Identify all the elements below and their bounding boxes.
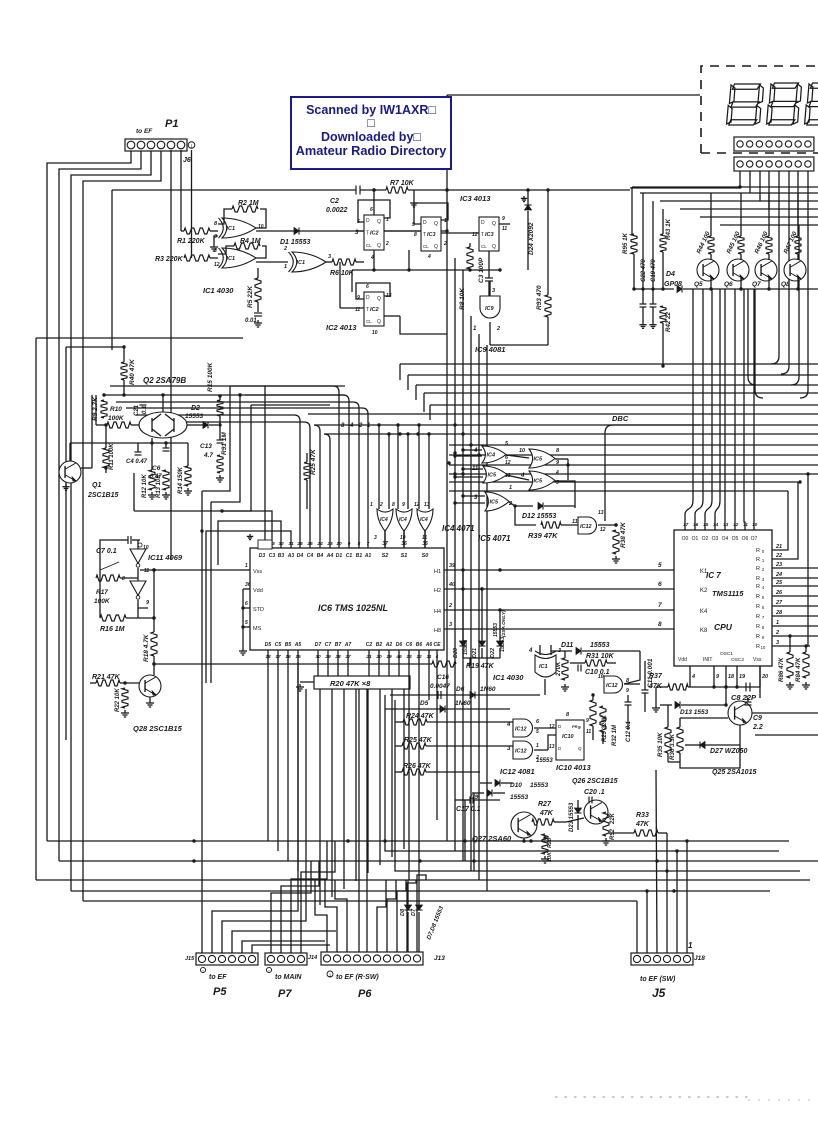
svg-text:4: 4 xyxy=(473,448,478,454)
svg-text:R31 10K: R31 10K xyxy=(586,653,615,660)
svg-text:A2: A2 xyxy=(385,642,393,648)
svg-text:A6: A6 xyxy=(425,642,433,648)
svg-text:15553: 15553 xyxy=(590,642,610,649)
svg-text:D5: D5 xyxy=(420,700,429,707)
svg-text:O7: O7 xyxy=(751,536,758,542)
svg-text:D3: D3 xyxy=(259,553,266,559)
svg-text:CL: CL xyxy=(481,244,487,249)
svg-text:4: 4 xyxy=(555,470,559,476)
svg-text:14: 14 xyxy=(713,522,719,528)
svg-text:C3 100P: C3 100P xyxy=(478,257,485,283)
svg-text:10: 10 xyxy=(372,330,378,336)
svg-text:12: 12 xyxy=(214,262,220,268)
svg-text:21: 21 xyxy=(775,544,782,550)
svg-text:5: 5 xyxy=(658,562,662,569)
svg-text:D2: D2 xyxy=(191,405,200,412)
svg-text:C7 0.1: C7 0.1 xyxy=(96,548,117,555)
svg-text:IC5 4071: IC5 4071 xyxy=(478,534,511,543)
svg-text:R27: R27 xyxy=(538,801,552,808)
svg-text:24: 24 xyxy=(775,572,782,578)
svg-text:28: 28 xyxy=(775,610,783,616)
svg-text:T: T xyxy=(481,232,484,238)
svg-text:3: 3 xyxy=(374,535,377,541)
svg-text:Q5: Q5 xyxy=(694,281,703,288)
svg-text:R20 47K ×8: R20 47K ×8 xyxy=(330,679,371,688)
svg-text:R44 100: R44 100 xyxy=(695,230,711,255)
svg-text:IC10 4013: IC10 4013 xyxy=(556,763,591,772)
svg-text:B1: B1 xyxy=(356,553,363,559)
svg-text:Scanned by IW1AXR□: Scanned by IW1AXR□ xyxy=(306,103,436,117)
svg-text:R11 100K: R11 100K xyxy=(109,443,115,470)
svg-text:Q7: Q7 xyxy=(752,281,761,288)
svg-text:B4: B4 xyxy=(317,553,324,559)
svg-text:R: R xyxy=(756,557,760,563)
svg-text:R93 470: R93 470 xyxy=(536,285,543,310)
svg-text:8: 8 xyxy=(556,448,560,454)
svg-text:O5: O5 xyxy=(732,536,739,542)
svg-text:10: 10 xyxy=(400,535,406,541)
svg-text:R92: R92 xyxy=(610,828,616,840)
svg-text:IC1: IC1 xyxy=(227,256,236,262)
svg-text:to EF (R·SW): to EF (R·SW) xyxy=(336,974,379,981)
svg-text:D6: D6 xyxy=(456,686,465,693)
svg-text:D4: D4 xyxy=(666,271,675,278)
svg-text:R5 22K: R5 22K xyxy=(247,285,254,308)
svg-text:40: 40 xyxy=(448,582,455,588)
svg-text:IC4: IC4 xyxy=(399,517,407,523)
svg-text:0.1: 0.1 xyxy=(142,405,148,414)
svg-text:IC12 4081: IC12 4081 xyxy=(500,767,535,776)
svg-text:C4: C4 xyxy=(307,553,314,559)
svg-text:Q26 2SC1B15: Q26 2SC1B15 xyxy=(572,778,618,785)
svg-text:D13 1553: D13 1553 xyxy=(680,709,709,716)
svg-text:D5: D5 xyxy=(265,642,272,648)
svg-text:IC1 4030: IC1 4030 xyxy=(493,673,524,682)
svg-text:2: 2 xyxy=(379,502,383,508)
svg-text:K8: K8 xyxy=(700,628,708,634)
svg-text:2: 2 xyxy=(283,246,287,252)
svg-text:1: 1 xyxy=(370,502,373,508)
svg-text:to EF: to EF xyxy=(209,974,227,981)
svg-text:2: 2 xyxy=(496,326,500,332)
svg-text:D21: D21 xyxy=(472,648,478,658)
svg-text:D23 15553: D23 15553 xyxy=(569,802,575,832)
svg-text:H1: H1 xyxy=(434,569,441,575)
svg-text:8: 8 xyxy=(566,712,570,718)
svg-text:D1: D1 xyxy=(336,553,343,559)
svg-text:R: R xyxy=(756,624,760,630)
svg-text:D7,D8 15553: D7,D8 15553 xyxy=(426,905,445,941)
svg-text:IC11 4069: IC11 4069 xyxy=(148,553,183,562)
svg-text:4: 4 xyxy=(506,722,511,728)
svg-text:to MAIN: to MAIN xyxy=(275,974,302,981)
svg-text:D: D xyxy=(366,218,370,224)
svg-text:IC1: IC1 xyxy=(539,664,548,670)
svg-text:R18 4.7K: R18 4.7K xyxy=(143,633,150,662)
svg-text:3: 3 xyxy=(449,622,452,628)
svg-text:18: 18 xyxy=(728,674,735,680)
svg-text:Vss: Vss xyxy=(253,569,262,575)
svg-text:6: 6 xyxy=(370,207,373,213)
svg-text:9: 9 xyxy=(586,718,589,724)
svg-text:C2: C2 xyxy=(330,198,339,205)
svg-text:12: 12 xyxy=(414,502,420,508)
svg-text:C19 470: C19 470 xyxy=(651,259,657,282)
svg-text:O3: O3 xyxy=(712,536,719,542)
svg-text:C20 .1: C20 .1 xyxy=(584,789,605,796)
svg-text:J14: J14 xyxy=(308,955,317,961)
svg-text:R22 10K: R22 10K xyxy=(115,688,121,712)
svg-text:C2: C2 xyxy=(366,642,373,648)
svg-text:13: 13 xyxy=(723,522,729,528)
svg-text:R47 100: R47 100 xyxy=(782,230,798,255)
svg-text:J6: J6 xyxy=(183,157,191,164)
svg-text:IC2: IC2 xyxy=(370,231,379,237)
svg-text:2: 2 xyxy=(358,423,363,429)
svg-text:D22: D22 xyxy=(490,648,496,658)
svg-text:Q: Q xyxy=(434,244,438,250)
svg-text:IC4 4071: IC4 4071 xyxy=(442,524,475,533)
svg-text:D7: D7 xyxy=(315,642,322,648)
svg-text:IC2: IC2 xyxy=(370,307,379,313)
svg-text:R86 47K: R86 47K xyxy=(778,657,785,682)
svg-text:R42 22: R42 22 xyxy=(665,311,672,332)
svg-text:C1: C1 xyxy=(346,553,353,559)
svg-text:IC10: IC10 xyxy=(562,734,574,740)
svg-text:A4: A4 xyxy=(326,553,334,559)
svg-text:15553: 15553 xyxy=(463,640,469,655)
svg-text:to EF (SW): to EF (SW) xyxy=(640,976,676,983)
svg-text:MS: MS xyxy=(253,626,262,632)
svg-text:R: R xyxy=(756,594,760,600)
svg-text:R4 1M: R4 1M xyxy=(240,238,261,245)
svg-text:R36 3.3K: R36 3.3K xyxy=(669,733,676,760)
svg-text:R: R xyxy=(756,644,760,650)
svg-text:Q27 2SA60: Q27 2SA60 xyxy=(472,834,512,843)
svg-text:1N60: 1N60 xyxy=(455,700,471,707)
svg-text:270K: 270K xyxy=(556,661,562,677)
svg-text:11: 11 xyxy=(144,568,149,574)
svg-text:R10: R10 xyxy=(110,406,122,413)
svg-text:100K: 100K xyxy=(108,415,125,422)
svg-text:STD: STD xyxy=(253,607,264,613)
svg-text:Q: Q xyxy=(377,296,381,302)
svg-text:6: 6 xyxy=(536,719,540,725)
svg-text:6: 6 xyxy=(366,284,369,290)
svg-text:D4: D4 xyxy=(297,553,304,559)
svg-text:P5: P5 xyxy=(213,986,227,998)
svg-text:R21 47K: R21 47K xyxy=(92,674,121,681)
svg-text:IC4: IC4 xyxy=(487,453,496,459)
svg-text:11: 11 xyxy=(743,522,748,528)
svg-text:1: 1 xyxy=(473,326,477,332)
svg-text:B5: B5 xyxy=(285,642,292,648)
svg-text:0.0047: 0.0047 xyxy=(430,683,450,690)
svg-text:15553: 15553 xyxy=(185,413,203,420)
svg-text:R2 1M: R2 1M xyxy=(238,200,259,207)
svg-text:IC 7: IC 7 xyxy=(706,571,721,580)
svg-text:6: 6 xyxy=(658,581,662,588)
svg-text:13: 13 xyxy=(549,744,555,750)
svg-text:10K: 10K xyxy=(547,851,553,862)
svg-text:C4 0.47: C4 0.47 xyxy=(126,459,148,465)
svg-text:R1 220K: R1 220K xyxy=(177,238,206,245)
svg-text:IC9 4081: IC9 4081 xyxy=(475,345,505,354)
svg-text:4: 4 xyxy=(528,648,533,654)
svg-text:IC1: IC1 xyxy=(297,260,306,266)
svg-text:8: 8 xyxy=(414,232,417,238)
svg-text:C5: C5 xyxy=(275,642,282,648)
svg-text:IC12: IC12 xyxy=(580,524,592,530)
svg-text:T: T xyxy=(366,231,369,237)
svg-text:A1: A1 xyxy=(364,553,372,559)
svg-text:R8 10K: R8 10K xyxy=(459,287,466,310)
svg-text:IC5: IC5 xyxy=(488,473,498,479)
svg-text:R40 47K: R40 47K xyxy=(129,358,136,385)
svg-text:A3: A3 xyxy=(287,553,295,559)
svg-text:10: 10 xyxy=(752,522,758,528)
svg-text:D27 WZ050: D27 WZ050 xyxy=(710,748,747,755)
svg-text:8: 8 xyxy=(214,221,218,227)
svg-text:D8: D8 xyxy=(400,908,406,916)
svg-text:Q: Q xyxy=(492,221,496,227)
svg-text:R84 47K: R84 47K xyxy=(795,657,802,682)
svg-text:Amateur Radio Directory: Amateur Radio Directory xyxy=(296,143,448,158)
svg-text:3: 3 xyxy=(776,640,779,646)
svg-text:D11: D11 xyxy=(561,642,573,649)
svg-text:12: 12 xyxy=(505,460,511,466)
svg-text:P7: P7 xyxy=(278,988,292,1000)
svg-text:H4: H4 xyxy=(434,609,441,615)
svg-text:D20: D20 xyxy=(453,648,459,658)
svg-text:Q: Q xyxy=(377,243,381,249)
svg-text:5: 5 xyxy=(245,620,248,626)
svg-text:9: 9 xyxy=(402,502,405,508)
svg-text:R43 1K: R43 1K xyxy=(665,218,672,240)
svg-text:R3 220K: R3 220K xyxy=(155,256,184,263)
svg-text:H2: H2 xyxy=(434,588,441,594)
svg-text:S1: S1 xyxy=(401,553,408,559)
svg-text:C17 0.1: C17 0.1 xyxy=(456,806,481,813)
svg-text:CE: CE xyxy=(434,642,442,648)
svg-text:10: 10 xyxy=(258,224,264,230)
svg-text:15553: 15553 xyxy=(530,782,548,789)
svg-text:C6: C6 xyxy=(406,642,413,648)
svg-text:11: 11 xyxy=(586,729,591,735)
svg-text:2: 2 xyxy=(448,603,452,609)
svg-text:Q1: Q1 xyxy=(92,482,101,489)
svg-text:2: 2 xyxy=(385,241,389,247)
svg-text:R33: R33 xyxy=(636,812,649,819)
svg-text:IC3 4013: IC3 4013 xyxy=(460,194,491,203)
svg-text:C3: C3 xyxy=(269,553,276,559)
svg-text:IC3: IC3 xyxy=(485,232,494,238)
svg-text:R: R xyxy=(756,584,760,590)
svg-text:16: 16 xyxy=(693,522,699,528)
svg-text:Q8: Q8 xyxy=(781,281,790,288)
svg-text:22K: 22K xyxy=(610,812,616,825)
svg-text:C8 22P: C8 22P xyxy=(731,693,757,702)
svg-text:DBC: DBC xyxy=(612,414,629,423)
svg-text:15553: 15553 xyxy=(500,637,506,652)
svg-text:1: 1 xyxy=(367,423,371,429)
svg-text:8: 8 xyxy=(214,248,217,254)
svg-text:A7: A7 xyxy=(344,642,352,648)
svg-text:C21: C21 xyxy=(134,404,140,416)
svg-text:R6 10K: R6 10K xyxy=(330,270,355,277)
svg-text:5: 5 xyxy=(505,441,509,447)
svg-text:8: 8 xyxy=(122,576,125,582)
svg-text:47K: 47K xyxy=(635,821,650,828)
svg-text:R28: R28 xyxy=(547,837,553,848)
svg-text:1N60: 1N60 xyxy=(480,686,496,693)
svg-text:K4: K4 xyxy=(700,609,708,615)
svg-text:1: 1 xyxy=(688,941,693,950)
svg-text:H8: H8 xyxy=(434,628,441,634)
svg-text:(2SA ONLY): (2SA ONLY) xyxy=(501,610,507,637)
svg-text:19: 19 xyxy=(739,674,746,680)
svg-text:D10: D10 xyxy=(510,782,522,789)
svg-text:D: D xyxy=(481,220,485,226)
svg-text:R38 47K: R38 47K xyxy=(620,521,627,548)
svg-text:R17: R17 xyxy=(96,589,108,596)
svg-text:23: 23 xyxy=(775,562,782,568)
svg-text:8: 8 xyxy=(341,423,345,429)
svg-text:C22 470: C22 470 xyxy=(641,259,647,282)
svg-text:IC4: IC4 xyxy=(380,517,388,523)
svg-text:B2: B2 xyxy=(376,642,383,648)
svg-text:R25 47K: R25 47K xyxy=(310,448,317,475)
svg-text:IC6 TMS 1025NL: IC6 TMS 1025NL xyxy=(318,603,388,613)
svg-text:4: 4 xyxy=(427,254,431,260)
svg-text:P1: P1 xyxy=(165,118,178,130)
svg-text:26: 26 xyxy=(775,590,783,596)
svg-text:to EF: to EF xyxy=(136,128,153,135)
svg-text:IC12: IC12 xyxy=(515,748,527,754)
svg-text:2: 2 xyxy=(443,241,447,247)
svg-text:A5: A5 xyxy=(294,642,302,648)
svg-text:11: 11 xyxy=(502,226,507,232)
svg-text:11: 11 xyxy=(572,519,578,525)
svg-text:D: D xyxy=(423,220,427,226)
svg-text:3: 3 xyxy=(328,254,331,260)
svg-text:CL: CL xyxy=(366,243,372,248)
svg-text:R95 1K: R95 1K xyxy=(622,232,629,254)
svg-text:J13: J13 xyxy=(434,955,445,962)
svg-text:9: 9 xyxy=(357,295,360,301)
svg-text:R: R xyxy=(756,614,760,620)
svg-text:R15 100K: R15 100K xyxy=(207,361,214,392)
svg-text:1: 1 xyxy=(444,218,447,224)
svg-text:T: T xyxy=(423,232,426,238)
svg-text:R32 1M: R32 1M xyxy=(612,724,618,746)
svg-text:J5: J5 xyxy=(652,986,666,1000)
svg-text:20: 20 xyxy=(761,674,768,680)
svg-text:17: 17 xyxy=(683,522,689,528)
svg-text:Vdd: Vdd xyxy=(253,588,263,594)
svg-text:IC5: IC5 xyxy=(490,500,500,506)
svg-text:R7 10K: R7 10K xyxy=(390,180,415,187)
svg-text:Q: Q xyxy=(578,746,582,751)
svg-text:S0: S0 xyxy=(422,553,429,559)
svg-text:27: 27 xyxy=(775,600,783,606)
svg-text:12: 12 xyxy=(600,527,606,533)
svg-text:13: 13 xyxy=(424,502,430,508)
svg-text:PR: PR xyxy=(572,724,578,729)
svg-text:Q2 2SA79B: Q2 2SA79B xyxy=(143,376,186,385)
svg-text:C9: C9 xyxy=(753,715,762,722)
svg-text:12: 12 xyxy=(549,724,555,730)
svg-text:15553: 15553 xyxy=(510,794,528,801)
svg-text:S2: S2 xyxy=(382,553,389,559)
svg-text:4: 4 xyxy=(691,674,695,680)
svg-text:R12 10K: R12 10K xyxy=(142,474,148,498)
svg-text:8: 8 xyxy=(392,502,395,508)
svg-text:Vdd: Vdd xyxy=(678,657,687,663)
svg-text:K2: K2 xyxy=(700,588,708,594)
svg-text:□: □ xyxy=(367,116,375,130)
svg-text:Downloaded by□: Downloaded by□ xyxy=(321,130,421,144)
svg-text:D1 15553: D1 15553 xyxy=(280,239,310,246)
svg-text:O6: O6 xyxy=(742,536,749,542)
svg-text:INIT: INIT xyxy=(703,657,712,663)
svg-text:2.2: 2.2 xyxy=(752,724,763,731)
svg-text:100K: 100K xyxy=(94,598,111,605)
svg-text:J18: J18 xyxy=(694,955,705,962)
svg-text:Q: Q xyxy=(434,221,438,227)
svg-text:CPU: CPU xyxy=(714,622,733,632)
svg-text:47K: 47K xyxy=(539,810,554,817)
svg-text:D12 15553: D12 15553 xyxy=(522,513,556,520)
svg-text:O4: O4 xyxy=(722,536,729,542)
svg-text:R16 1M: R16 1M xyxy=(100,626,125,633)
svg-text:1: 1 xyxy=(536,743,539,749)
svg-text:O2: O2 xyxy=(702,536,709,542)
svg-text:C12 0.1: C12 0.1 xyxy=(626,720,632,742)
svg-text:R13 10K: R13 10K xyxy=(156,474,162,498)
svg-text:9: 9 xyxy=(502,216,505,222)
svg-text:R14 150K: R14 150K xyxy=(178,466,184,494)
svg-text:D7: D7 xyxy=(411,908,417,916)
svg-text:R: R xyxy=(756,576,760,582)
svg-text:C16: C16 xyxy=(437,674,449,681)
svg-text:1: 1 xyxy=(509,485,512,491)
svg-text:R: R xyxy=(756,548,760,554)
svg-text:12: 12 xyxy=(733,522,739,528)
svg-text:OSC2: OSC2 xyxy=(731,657,744,663)
svg-text:Q25 2SA1015: Q25 2SA1015 xyxy=(712,769,756,776)
svg-text:P6: P6 xyxy=(358,988,372,1000)
svg-text:R45 100: R45 100 xyxy=(725,230,741,255)
svg-text:J15: J15 xyxy=(185,956,195,962)
svg-text:IC5: IC5 xyxy=(534,479,544,485)
svg-text:D24 X2092: D24 X2092 xyxy=(528,222,535,255)
svg-text:IC4: IC4 xyxy=(420,517,428,523)
svg-text:R: R xyxy=(756,566,760,572)
svg-text:0.0022: 0.0022 xyxy=(326,207,348,214)
svg-text:IC2 4013: IC2 4013 xyxy=(326,323,357,332)
svg-text:IC1 4030: IC1 4030 xyxy=(203,286,234,295)
svg-text:C13: C13 xyxy=(200,443,212,450)
svg-text:2: 2 xyxy=(775,630,779,636)
svg-text:Q: Q xyxy=(377,319,381,325)
svg-text:C6: C6 xyxy=(152,465,161,472)
svg-text:4.7: 4.7 xyxy=(203,452,213,459)
svg-text:R35 10K: R35 10K xyxy=(657,732,664,757)
svg-text:1: 1 xyxy=(284,264,287,270)
svg-text:2SC1B15: 2SC1B15 xyxy=(87,492,118,499)
svg-text:13: 13 xyxy=(598,510,604,516)
